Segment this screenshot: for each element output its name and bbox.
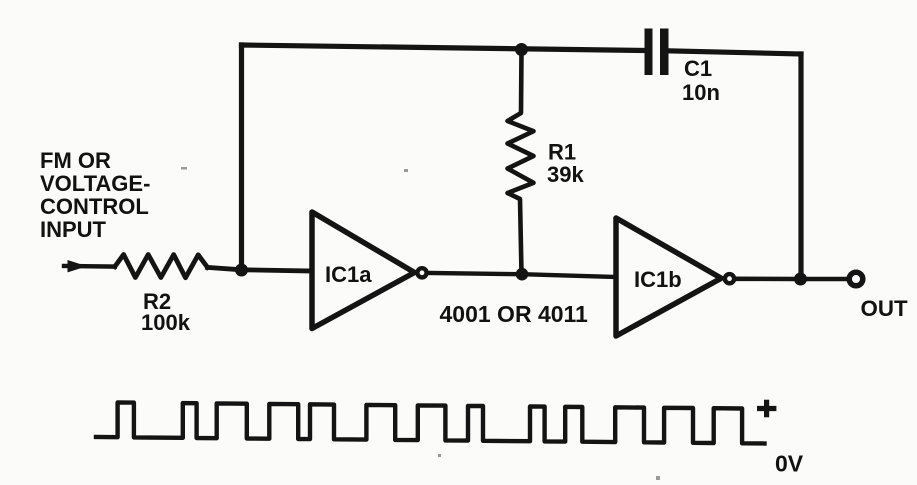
node: output junction (794, 273, 807, 286)
svg-text:IC1a: IC1a (325, 262, 372, 287)
node: junction top of R1 (515, 43, 528, 56)
svg-text:OUT: OUT (861, 296, 908, 321)
resistor R2 (115, 255, 208, 278)
wire: R2 to IC1a input (208, 267, 313, 271)
svg-text:CONTROL: CONTROL (40, 194, 149, 219)
wire: top horizontal left of C1 (242, 45, 645, 51)
svg-text:0V: 0V (775, 451, 804, 477)
terminal OUT (849, 272, 863, 286)
arrowhead input (68, 260, 88, 272)
svg-text:4001 OR 4011: 4001 OR 4011 (440, 301, 589, 327)
speck marks on scan (181, 167, 660, 480)
wire: top horizontal right of C1 (669, 51, 802, 54)
wire: right vertical feedback (798, 54, 803, 279)
wire: IC1a output to IC1b input (429, 273, 616, 277)
wire: IC1b output to OUT terminal (737, 276, 847, 281)
svg-text:C1: C1 (684, 56, 712, 81)
svg-text:39k: 39k (547, 162, 584, 187)
capacitor C1 (645, 29, 669, 76)
plus symbol at waveform top (757, 400, 776, 418)
svg-text:IC1b: IC1b (634, 267, 682, 292)
svg-text:100k: 100k (141, 310, 191, 335)
svg-text:FM OR: FM OR (40, 148, 111, 173)
svg-text:INPUT: INPUT (40, 217, 107, 242)
inverter IC1a triangle (312, 212, 415, 329)
svg-text:VOLTAGE-: VOLTAGE- (40, 171, 150, 196)
bubble IC1b output (725, 274, 734, 283)
waveform: FM square wave (96, 403, 765, 444)
svg-text:10n: 10n (682, 80, 720, 105)
node: input junction (235, 264, 248, 277)
wire: left vertical feedback (239, 45, 244, 270)
wire: input lead with arrow (64, 264, 115, 269)
bubble IC1a output (417, 268, 426, 277)
node: junction bottom of R1 (516, 268, 529, 281)
resistor R1 (508, 50, 534, 275)
inverter IC1b triangle (616, 218, 721, 336)
svg-text:R1: R1 (548, 140, 576, 165)
